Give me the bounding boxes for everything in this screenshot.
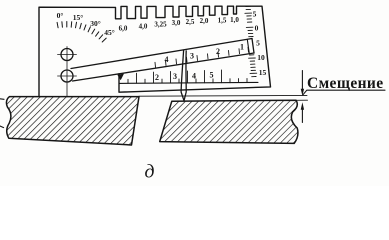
svg-text:0: 0: [255, 24, 259, 33]
svg-text:45°: 45°: [104, 28, 115, 37]
svg-text:15°: 15°: [73, 13, 84, 22]
svg-text:1,5: 1,5: [218, 17, 227, 25]
svg-text:4: 4: [165, 55, 169, 64]
svg-text:30°: 30°: [90, 19, 101, 28]
ruler scale numbers: [165, 42, 245, 64]
dimension line lower segment with up arrow: [301, 108, 303, 123]
right plate (hatched workpiece, lower by the offset): [160, 100, 298, 143]
break-line stub left edge bottom: [0, 126, 4, 128]
slider ruler upper edge: [71, 39, 252, 69]
svg-text:Смещение: Смещение: [307, 75, 384, 92]
bottom scale line: [119, 82, 258, 83]
bottom scale ticks: [128, 70, 247, 83]
right vertical scale tick dashes: [245, 6, 257, 76]
slider index pointer: [117, 74, 124, 81]
svg-text:3: 3: [190, 52, 194, 61]
comb value labels: [119, 16, 240, 33]
hole centerlines: [58, 47, 77, 97]
right scale numbers: [253, 10, 267, 78]
svg-text:2: 2: [155, 73, 159, 82]
svg-text:1: 1: [240, 42, 244, 51]
gauge body outline with comb of gap teeth on top: [39, 6, 271, 96]
svg-text:5: 5: [253, 10, 257, 19]
svg-text:5: 5: [210, 71, 214, 80]
ruler tick marks: [155, 47, 249, 67]
svg-text:15: 15: [259, 68, 267, 77]
svg-text:3,25: 3,25: [154, 21, 167, 29]
upper pivot hole: [61, 49, 73, 61]
svg-text:4,0: 4,0: [139, 23, 148, 31]
svg-text:2,5: 2,5: [186, 18, 195, 26]
angle scale arc ticks: [57, 22, 106, 43]
leader underline to label: [303, 90, 385, 95]
lower extension line (right plate surface): [296, 99, 308, 101]
lower pivot hole: [61, 70, 73, 82]
slider ruler lower edge: [73, 53, 255, 81]
svg-text:1,0: 1,0: [230, 16, 239, 24]
svg-text:5: 5: [256, 39, 260, 48]
svg-text:0°: 0°: [57, 11, 64, 20]
slider ruler right end cap: [252, 39, 254, 54]
svg-text:2: 2: [216, 47, 220, 56]
bottom scale numbers: [155, 71, 214, 83]
angle labels: [57, 11, 115, 37]
svg-text:3: 3: [173, 72, 177, 81]
svg-text:6,0: 6,0: [119, 25, 128, 33]
break-line stub left edge top: [0, 98, 4, 101]
svg-text:д: д: [145, 162, 155, 183]
svg-text:2,0: 2,0: [200, 17, 209, 25]
svg-text:4: 4: [192, 72, 196, 81]
dimension line upper segment with down arrow: [301, 71, 303, 91]
upper extension line (left plate surface): [139, 94, 307, 97]
left plate (hatched workpiece): [6, 97, 139, 145]
svg-text:10: 10: [257, 53, 265, 62]
svg-text:3,0: 3,0: [172, 19, 181, 27]
depth needle: [181, 51, 184, 101]
slider ruler inner end line: [247, 39, 249, 53]
